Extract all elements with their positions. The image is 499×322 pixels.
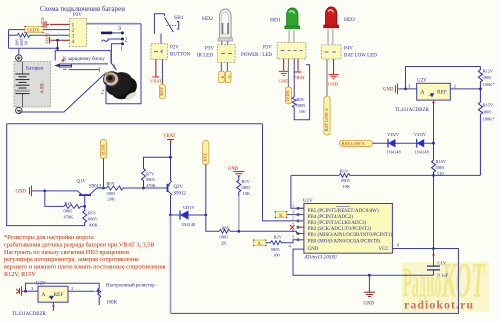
wire PB5 riser [291, 175, 304, 208]
junction dot VD3V / R10V [432, 142, 435, 145]
resistor R10V [432, 143, 436, 175]
wire top rail of lower section [7, 123, 263, 125]
wire BAT LOW A to diodes [373, 142, 434, 144]
wire battery plus riser [18, 48, 20, 55]
jack symbol pin1 [121, 42, 124, 45]
GND flag at U3V [16, 287, 24, 296]
svg-text:R15V: R15V [483, 103, 494, 108]
resistor R12V [478, 67, 482, 89]
svg-text:A: A [421, 90, 425, 96]
svg-text:0805: 0805 [20, 38, 24, 46]
wire P3V pin4 stub (VBAT) [52, 39, 70, 41]
junction dot R12V/R15V [479, 88, 482, 91]
svg-text:VD2V: VD2V [387, 132, 400, 137]
HD1 pin2 stub to LEDX [287, 59, 289, 87]
wire P2V pin1 stub to VBAT [155, 59, 157, 76]
GND power symbol at U2V [396, 84, 401, 95]
svg-text:SB1: SB1 [174, 15, 184, 21]
net label KEY (vertical) [159, 84, 165, 99]
battery thick cell [15, 90, 30, 92]
battery box [14, 62, 51, 108]
svg-text:100: 100 [299, 109, 306, 114]
net label K (pill) [275, 212, 286, 218]
svg-text:K: K [220, 76, 225, 79]
svg-text:Q1V: Q1V [77, 180, 87, 185]
svg-text:GND: GND [328, 82, 339, 87]
svg-text:VD1V: VD1V [183, 205, 196, 210]
junction dot VD1V right [204, 214, 207, 217]
net label LEDX [25, 27, 43, 33]
svg-text:0805: 0805 [483, 75, 493, 80]
svg-text:GND: GND [383, 88, 394, 93]
wire top rail to PB3 [263, 124, 297, 221]
MCU left pin stubs [297, 208, 304, 240]
HD3 red LED photo [324, 7, 339, 28]
svg-text:PB4 (PCINT4/ADC2): PB4 (PCINT4/ADC2) [308, 213, 354, 220]
wire left edge of lower section [7, 124, 85, 226]
svg-text:Настроить по началу свечения: Настроить по началу свечения HD3 вращени… [4, 249, 129, 256]
svg-text:BUTTON: BUTTON [170, 53, 191, 58]
junction dot pin4 riser [56, 39, 59, 42]
junction dot pin8 [432, 247, 435, 250]
svg-text:R4V: R4V [65, 201, 74, 206]
svg-text:0805: 0805 [436, 165, 446, 170]
wire resistor R6V [104, 186, 144, 190]
svg-text:0805: 0805 [483, 110, 493, 115]
svg-text:2K: 2K [221, 241, 227, 246]
svg-text:0805: 0805 [271, 247, 281, 252]
svg-text:LEDX: LEDX [285, 90, 290, 101]
svg-text:3: 3 [113, 65, 116, 71]
svg-text:C1V: C1V [438, 261, 447, 266]
net label A (pill) [254, 240, 266, 246]
VBAT symbol under HD1 [295, 68, 302, 72]
wire U2V pin2 [450, 88, 480, 90]
battery plus terminal [16, 55, 22, 61]
ground symbol [368, 275, 370, 292]
plus lead line [72, 63, 109, 65]
svg-text:*Резисторы для настройки порог: *Резисторы для настройки порога [4, 234, 94, 241]
svg-text:R12V, R15V: R12V, R15V [4, 271, 36, 278]
VBAT power symbol [152, 73, 159, 77]
svg-text:100: 100 [273, 252, 280, 257]
svg-text:PB0 (MOSI/AIN0/OC0A/PCINT0): PB0 (MOSI/AIN0/OC0A/PCINT0) [308, 237, 381, 244]
svg-text:REF: REF [437, 90, 447, 96]
svg-text:100K: 100K [106, 301, 118, 306]
wire KEY pill down to VD1V [205, 165, 207, 216]
svg-text:0805: 0805 [242, 185, 252, 190]
wire VBAT to Q2V emitter [170, 143, 172, 181]
svg-text:R7V: R7V [146, 172, 155, 177]
svg-text:HD1: HD1 [270, 18, 281, 24]
battery internal wire [22, 62, 24, 108]
svg-text:HD3: HD3 [344, 17, 355, 23]
resistor R5V [83, 206, 87, 225]
wire Q1V collector node [97, 187, 104, 189]
wire U2V pin1 down [433, 100, 435, 143]
IC U2V TL431 body [417, 83, 451, 100]
svg-text:1N4148: 1N4148 [181, 222, 196, 227]
svg-text:R8V: R8V [222, 225, 231, 230]
svg-text:К зарядному блоку: К зарядному блоку [63, 55, 105, 62]
svg-text:срабатывания датчика разряда б: срабатывания датчика разряда батареи при… [4, 241, 154, 248]
junction dot R3V/R8V [237, 230, 240, 233]
charge plug symbol [54, 64, 60, 68]
wire U3V pin3 [24, 290, 38, 292]
HD2 legs [222, 41, 228, 45]
wire connector pin2 loop [106, 24, 141, 104]
svg-text:P2V: P2V [170, 46, 179, 51]
wire U2V top rail [406, 67, 481, 89]
DIN connector photo [101, 67, 140, 103]
svg-text:10K: 10K [243, 191, 251, 196]
svg-text:R8V: R8V [296, 97, 305, 102]
wire U3V pin1 stub [52, 302, 54, 311]
svg-text:2: 2 [101, 90, 104, 96]
svg-text:470K: 470K [64, 215, 75, 220]
svg-text:регулятора потенциометра, заме: регулятора потенциометра, замеряя сопрот… [4, 256, 139, 263]
wire Q1V base down [84, 195, 86, 206]
wire Q2V collector to bottom rail [170, 215, 172, 313]
svg-text:POWER / LED: POWER / LED [241, 53, 272, 58]
svg-text:P3V: P3V [263, 46, 272, 51]
svg-text:3: 3 [292, 209, 294, 214]
wire VCC bottom loop [171, 249, 458, 314]
svg-text:LEDX: LEDX [100, 144, 105, 155]
svg-text:0805: 0805 [341, 178, 351, 183]
svg-text:P3V: P3V [205, 47, 214, 52]
svg-text:4: 4 [72, 39, 75, 45]
svg-text:верхнего и нижнего плеча влият: верхнего и нижнего плеча влиять постоянн… [4, 264, 166, 271]
svg-text:1N4148: 1N4148 [387, 150, 402, 155]
svg-text:0.1uF: 0.1uF [438, 273, 449, 278]
svg-text:Батарея: Батарея [26, 66, 44, 72]
svg-text:20K: 20K [108, 197, 116, 202]
svg-text:0805: 0805 [64, 209, 74, 214]
wire K to PB4 [287, 214, 297, 216]
minus lead line [69, 69, 99, 71]
net label K (rotated, under HD2) [219, 71, 225, 82]
svg-text:ATtiny13-20SSU: ATtiny13-20SSU [304, 256, 338, 261]
watermark background block [402, 262, 490, 312]
junction dot base/R4V/R5V [83, 205, 86, 208]
connector P3V body [70, 19, 87, 47]
junction dot wireA [56, 47, 59, 50]
svg-text:BAT LOW A: BAT LOW A [342, 141, 366, 146]
svg-text:0805: 0805 [146, 177, 156, 182]
resistor R7V [142, 157, 171, 188]
HD2 pin stubs [221, 62, 227, 71]
svg-text:10K: 10K [343, 184, 351, 189]
MCU U1V ATtiny13 body [304, 204, 393, 254]
wire Q2V collector down [170, 195, 172, 215]
svg-text:LEDX: LEDX [27, 27, 40, 32]
wire P3V out top (thick light) [87, 23, 142, 25]
VBAT power symbol lower [167, 140, 174, 144]
junction dot VBAT branch [169, 156, 172, 159]
svg-text:radiokot.ru: radiokot.ru [404, 298, 474, 312]
resistor R15V [478, 89, 482, 175]
svg-text:A: A [258, 242, 262, 247]
svg-text:1: 1 [120, 47, 123, 53]
wire MCU VCC pin8 [392, 248, 433, 250]
wire GND to Q1V emitter [34, 190, 78, 192]
svg-text:1: 1 [292, 203, 294, 208]
svg-text:3: 3 [118, 26, 121, 32]
connector P3V (POWER) body [277, 43, 306, 59]
charge annotation box corner [55, 51, 111, 61]
HD1 pin1 stub to GND [283, 59, 285, 71]
wire VCC riser / C1V column [433, 175, 435, 275]
connector P3V (IR) body [218, 45, 236, 63]
svg-text:VBAT: VBAT [150, 79, 162, 84]
svg-text:K: K [279, 214, 283, 219]
IC U3V TL431 body (trim) [38, 286, 68, 302]
wire HD1 pin4 with resistor R8V [292, 59, 309, 120]
junction dot collector [102, 187, 105, 190]
junction dot VD1V left [169, 214, 172, 217]
HD3 pin1 stub [326, 59, 328, 96]
svg-text:PB2 (SCK/ADC1/T0/PCINT2): PB2 (SCK/ADC1/T0/PCINT2) [308, 225, 372, 232]
svg-text:R6V: R6V [107, 181, 116, 186]
svg-text:IR LED: IR LED [197, 54, 213, 59]
switch SB1 [154, 14, 173, 44]
svg-text:2: 2 [292, 216, 294, 221]
net label LEDX (lower, vertical) [100, 139, 106, 158]
minus mark [63, 69, 66, 71]
GND symbol above R3V [233, 172, 244, 176]
potentiometer 100K [98, 287, 101, 306]
HD3 legs [328, 29, 333, 45]
svg-text:TL431ACDBZR: TL431ACDBZR [12, 312, 47, 317]
wire U2V pin3 [400, 88, 417, 90]
battery minus terminal [16, 107, 22, 113]
svg-text:68: 68 [25, 41, 29, 45]
svg-text:0805: 0805 [296, 103, 306, 108]
svg-text:PB1 (MISO/AIN1/OC0B/INT0/PCINT: PB1 (MISO/AIN1/OC0B/INT0/PCINT1) [308, 231, 393, 238]
wire R4V branch [45, 191, 85, 209]
wire pin4 riser down [58, 40, 117, 70]
net label BAT LOW A (vertical) [324, 96, 330, 135]
svg-text:A: A [227, 76, 232, 79]
pin numbers [292, 203, 294, 240]
wire MCU GND pin4 [293, 249, 434, 275]
GND symbol under HD3 [329, 75, 339, 79]
jack symbol pin3 thick bar [101, 32, 111, 35]
svg-text:U2V: U2V [417, 79, 427, 84]
junction dot R6V/R7V [142, 187, 145, 190]
plus mark [61, 59, 64, 62]
HD1 green LED photo [285, 8, 300, 29]
svg-text:470K: 470K [146, 183, 157, 188]
wire U3V pin2 to potentiometer [68, 290, 94, 292]
svg-text:A: A [42, 292, 46, 298]
svg-text:PB5 (PCINT5/RESET/ADC0/dW): PB5 (PCINT5/RESET/ADC0/dW) [308, 207, 379, 214]
svg-text:HD2: HD2 [202, 16, 213, 22]
svg-text:Q2V: Q2V [174, 185, 184, 190]
svg-text:R1V: R1V [340, 168, 349, 173]
HD2 IR LED photo [218, 9, 233, 41]
svg-text:1: 1 [98, 68, 101, 74]
VBAT power symbol rotated [50, 37, 53, 44]
HD1 legs [289, 30, 294, 42]
wire VD1V node to R8V row [206, 215, 297, 234]
junction dot U2V pin3 riser [404, 88, 407, 91]
svg-text:P3V: P3V [73, 13, 82, 18]
connector P4V body [321, 45, 341, 59]
GND power symbol (rotated) [44, 21, 49, 28]
wire P3V pin1 stub [50, 23, 70, 25]
GND symbol under HD1 [279, 71, 289, 75]
connector P2V body [151, 44, 167, 60]
svg-text:TL431ACDBZR: TL431ACDBZR [395, 108, 430, 113]
wire P3V pin3 with resistor R9V [9, 33, 70, 37]
junction dot GND branch [43, 190, 46, 193]
svg-text:VBAT: VBAT [293, 75, 305, 80]
svg-text:GND: GND [16, 190, 27, 195]
svg-text:R3V: R3V [242, 179, 251, 184]
svg-text:100K: 100K [88, 223, 99, 228]
svg-text:100K*: 100K* [483, 82, 495, 87]
junction dot GND rail [368, 274, 371, 277]
junction dot R10V bottom [432, 174, 435, 177]
wire R1V rail [291, 173, 481, 177]
svg-text:VBAT: VBAT [45, 32, 50, 44]
svg-text:R2V: R2V [274, 235, 283, 240]
svg-text:KEY: KEY [203, 153, 208, 162]
footnote text [4, 234, 166, 278]
svg-text:Схема подключения батареи: Схема подключения батареи [40, 5, 125, 13]
svg-text:BAT LOW LED: BAT LOW LED [344, 54, 377, 59]
svg-text:0805: 0805 [220, 235, 230, 240]
jack symbol pin2 [102, 39, 123, 42]
svg-text:S9012: S9012 [174, 192, 187, 197]
svg-text:P4V: P4V [344, 47, 353, 52]
svg-text:5: 5 [292, 235, 294, 240]
svg-text:VCC: VCC [379, 247, 390, 252]
svg-text:REF: REF [54, 292, 64, 298]
svg-text:VBAT: VBAT [163, 134, 176, 139]
svg-text:GND: GND [40, 17, 45, 27]
wire battery minus [19, 74, 105, 113]
svg-text:R5V: R5V [88, 211, 97, 216]
net label BAT LOW A (horizontal pill) [340, 140, 373, 146]
no-connect X on PB2 [290, 225, 295, 230]
wire P2V pin2 stub [161, 59, 163, 84]
GND power symbol lower left [30, 186, 35, 197]
svg-text:0805: 0805 [88, 217, 98, 222]
svg-text:2: 2 [125, 38, 128, 44]
net label LEDX (vertical) [285, 87, 291, 104]
junction dot U3V pin3 [24, 290, 27, 293]
svg-text:BAT LOW A: BAT LOW A [324, 107, 329, 131]
svg-text:Настроечный резистор: Настроечный резистор [106, 284, 155, 289]
battery cells [16, 74, 30, 94]
svg-text:1N4148: 1N4148 [415, 150, 430, 155]
resistor R3V [237, 176, 241, 196]
HD3 pin2 stub to GND [333, 59, 335, 75]
net label A (rotated, under HD2) [225, 71, 231, 82]
svg-text:4.8В: 4.8В [40, 83, 46, 94]
wire left loop vertical [9, 30, 58, 49]
svg-text:GND: GND [308, 247, 319, 252]
svg-text:R12V: R12V [483, 69, 494, 74]
svg-text:0805: 0805 [107, 191, 117, 196]
svg-text:R9V: R9V [16, 38, 20, 45]
svg-text:100K*: 100K* [483, 117, 495, 122]
wire U3V feedback loop over the top [26, 283, 100, 291]
svg-text:GND: GND [279, 79, 290, 84]
svg-text:KEY: KEY [159, 86, 164, 96]
watermark RadioKOT [403, 254, 486, 308]
HD1 pin3 stub to VBAT [297, 59, 299, 68]
wire P3V pin2 to LEDX [43, 29, 70, 31]
svg-text:GND: GND [364, 302, 375, 307]
wire LEDX pill to collector [103, 158, 105, 188]
wire A through resistor R2V to PB0 [266, 240, 297, 245]
capacitor C1V [427, 266, 440, 270]
net label KEY (lower, vertical) [203, 141, 209, 165]
svg-text:R10V: R10V [436, 159, 447, 164]
svg-text:PB3 (PCINT3/CLKI/ADC3): PB3 (PCINT3/CLKI/ADC3) [308, 219, 367, 226]
svg-text:S9013: S9013 [89, 185, 102, 190]
svg-text:VD3V: VD3V [414, 132, 427, 137]
